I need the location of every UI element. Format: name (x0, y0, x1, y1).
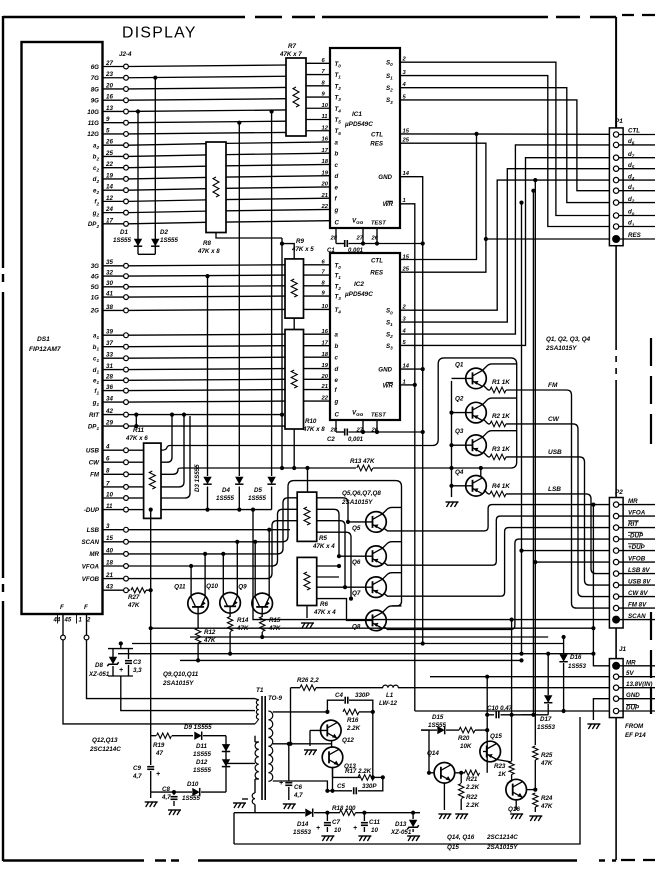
svg-text:VFOA: VFOA (82, 563, 100, 570)
capacitor C5 330P (327, 790, 352, 792)
zener diode D8 XZ-051 (112, 649, 114, 657)
svg-text:25: 25 (402, 267, 410, 273)
svg-text:12G: 12G (87, 131, 99, 138)
wire IC1 S1 to P1 d1 (400, 76, 609, 227)
svg-text:g: g (334, 207, 339, 214)
resistor R17 2.2K (332, 768, 334, 778)
transistor Q12 2SC1214C (321, 720, 342, 741)
resistor R14 47K (229, 606, 231, 617)
svg-text:USB: USB (548, 449, 562, 456)
svg-text:FM: FM (90, 472, 100, 479)
capacitor C9 4.7 (147, 766, 154, 768)
P1 pin d2 (613, 200, 618, 205)
transistor Q4 2SA1015Y (466, 476, 487, 497)
svg-text:C11: C11 (369, 819, 380, 826)
resistor R26 2.2 (300, 685, 316, 691)
svg-text:17: 17 (322, 340, 329, 346)
svg-text:+: + (353, 825, 357, 832)
wire R16/C4 node down (372, 712, 374, 778)
wire T1 lower winding stubs (255, 741, 259, 743)
ground under C9 line (150, 792, 152, 798)
capacitor C2 0.001 (336, 431, 344, 433)
capacitor C10 0.47 (487, 714, 494, 716)
zener diode D13 XZ-051 (412, 813, 414, 819)
transistor Q9 2SA1015Y (252, 593, 273, 614)
svg-text:R6: R6 (320, 601, 328, 608)
svg-text:J1: J1 (619, 646, 627, 653)
svg-text:2SC1214C: 2SC1214C (486, 834, 518, 841)
P1 pin d7 (613, 155, 618, 160)
svg-text:8G: 8G (91, 86, 99, 93)
svg-text:330P: 330P (355, 692, 370, 699)
svg-text:13.8V(IN): 13.8V(IN) (626, 681, 652, 688)
svg-text:g: g (334, 399, 339, 406)
svg-text:FROM: FROM (625, 723, 644, 730)
resistor R23 1K (509, 762, 514, 775)
wire CTL vertical to IC2 (400, 134, 477, 260)
P2 pin LSB 8V (613, 571, 618, 576)
J1 pin MR (612, 662, 620, 670)
svg-text:Q10: Q10 (206, 583, 218, 590)
R5 output fan wires (317, 498, 348, 522)
adjacent sheet fold dashes right edge (650, 338, 652, 714)
frame line through J1 bottom (615, 718, 617, 860)
P2 pin USB 8V (613, 582, 618, 587)
wire R19 line (151, 735, 156, 737)
wire IC2 WR row (400, 384, 415, 386)
wire FM to P2 (506, 390, 609, 608)
Q6 base wire (339, 555, 373, 557)
wire P1 d6 to IC2 S2 (400, 145, 609, 334)
svg-text:RIT: RIT (628, 521, 639, 528)
bus wire to J1 MR (151, 627, 594, 629)
R11 output fan wire to Q1-Q4 hood line (161, 446, 170, 451)
transistor Q13 2SC1214C stacked (322, 747, 343, 768)
svg-text:17: 17 (322, 148, 329, 154)
capacitor C8 4.7 (173, 792, 175, 795)
P2 pin FM 8V (613, 605, 618, 610)
svg-text:R18 100: R18 100 (332, 805, 356, 812)
wire P1 d4 to IC2 S0 (400, 180, 609, 310)
Q16 emitter ground (515, 800, 517, 810)
frame line P2 bottom to J1 top (615, 628, 617, 659)
P2 pin -DUP (613, 536, 618, 541)
svg-text:D14: D14 (297, 821, 309, 828)
svg-text:R15: R15 (269, 617, 281, 624)
svg-text:1G: 1G (91, 294, 99, 301)
svg-text:D2: D2 (160, 229, 168, 236)
wire R27 column up to -DUP bus (150, 510, 152, 591)
wire grid 10G column down to D5 (271, 112, 273, 477)
svg-text:2.2K: 2.2K (465, 802, 480, 809)
svg-text:SCAN: SCAN (628, 613, 646, 620)
IC IC2 uPD549C (330, 253, 400, 420)
svg-text:CTL: CTL (371, 131, 383, 138)
wire 7G grid junction down (154, 78, 156, 255)
wire Q12 emitter to Q13 (331, 741, 333, 747)
svg-text:FM: FM (548, 382, 558, 389)
resistor R12 47K (197, 607, 199, 628)
svg-text:4,7: 4,7 (132, 773, 142, 780)
svg-text:47K: 47K (540, 760, 553, 767)
svg-text:R5: R5 (319, 535, 327, 542)
wire D1 D2 common (138, 253, 155, 255)
diode D9 1S555 (194, 732, 201, 740)
Q5-Q8 emitter hood wire (288, 481, 402, 606)
wire 43 down to R19 line (146, 590, 151, 736)
svg-text:LSB: LSB (548, 486, 561, 493)
svg-text:D8: D8 (95, 662, 103, 669)
bus wire d3 column down (532, 191, 534, 715)
svg-text:L1: L1 (386, 692, 394, 699)
svg-text:CW: CW (89, 460, 100, 467)
svg-text:D15: D15 (432, 714, 444, 721)
svg-text:21: 21 (321, 193, 328, 199)
svg-text:7G: 7G (91, 75, 99, 82)
svg-text:5G: 5G (91, 284, 99, 291)
svg-text:R9: R9 (296, 238, 304, 245)
resistor network R10 47Kx8 (285, 330, 304, 430)
capacitor C7 10 (326, 813, 328, 821)
diode D14 1S553 (305, 809, 312, 817)
svg-text:C3: C3 (133, 659, 141, 666)
resistor R27 47K (129, 589, 131, 591)
svg-text:MR: MR (626, 659, 636, 666)
R6 row 2 wire (317, 576, 339, 578)
svg-text:2SA1015Y: 2SA1015Y (162, 680, 194, 687)
svg-text:16: 16 (322, 329, 329, 335)
svg-text:Q3: Q3 (455, 428, 464, 435)
svg-text:Q1, Q2, Q3, Q4: Q1, Q2, Q3, Q4 (546, 336, 591, 343)
bus wire 5 (180, 659, 522, 661)
resistor R25 47K (533, 746, 538, 760)
Q5 base wire (348, 521, 373, 523)
wire J1 MR to P2 MR (593, 505, 609, 666)
svg-text:WR: WR (383, 201, 394, 208)
Q7 base wire (317, 586, 373, 588)
svg-text:TO-9: TO-9 (268, 695, 283, 702)
J1 pin GND (613, 696, 618, 701)
adjacent sheet fold dashes bottom right (621, 859, 655, 861)
svg-text:TEST: TEST (371, 221, 386, 227)
capacitor C6 4.7 (288, 744, 290, 781)
P2 pin CW 8V (613, 594, 618, 599)
svg-text:-DUP: -DUP (84, 507, 100, 514)
svg-text:10G: 10G (87, 109, 99, 116)
svg-text:45: 45 (64, 618, 72, 624)
diode D16 1S553 (563, 637, 565, 654)
svg-text:VFOB: VFOB (628, 555, 646, 562)
svg-text:47K x 4: 47K x 4 (312, 543, 335, 550)
svg-text:10: 10 (371, 827, 378, 834)
wire R9 to R10 common (293, 318, 295, 329)
svg-text:D11: D11 (196, 743, 207, 750)
diode D11 1S555 (222, 744, 230, 751)
svg-text:VFOA: VFOA (628, 509, 646, 516)
Q14 base wire (429, 772, 434, 774)
svg-text:SCAN: SCAN (81, 539, 99, 546)
svg-text:18: 18 (322, 352, 329, 358)
P1 pin d5 (613, 166, 618, 171)
svg-text:D1: D1 (120, 229, 128, 236)
svg-text:Q7: Q7 (352, 590, 361, 597)
svg-text:1K: 1K (498, 771, 506, 778)
svg-text:CTL: CTL (628, 128, 640, 135)
svg-text:11: 11 (322, 114, 328, 120)
border frame right (615, 17, 617, 128)
wire Q15 emitter to R23 (497, 760, 512, 763)
svg-text:R12: R12 (204, 629, 216, 636)
T1 bottom coil (254, 779, 256, 793)
svg-text:2G: 2G (90, 308, 99, 315)
transistor Q15 2SA1015Y (480, 741, 501, 762)
svg-text:Q12: Q12 (342, 737, 354, 744)
wire C9 column (150, 736, 152, 765)
capacitor C1 0.001 (336, 243, 344, 245)
wire R10 common down (293, 429, 295, 468)
svg-text:CW 8V: CW 8V (628, 590, 648, 597)
svg-text:5V: 5V (626, 670, 634, 677)
wire R5 common from R13 (307, 468, 309, 492)
svg-text:D12: D12 (196, 759, 208, 766)
svg-text:GND: GND (378, 174, 392, 181)
wire Q8 collector to P2 via riser (384, 539, 610, 629)
bottom supply rail (234, 812, 305, 814)
diode D5 1S555 (267, 477, 275, 484)
P1 pin d3 (613, 188, 618, 193)
Q16 collector wire (527, 789, 536, 791)
svg-text:D5: D5 (254, 487, 262, 494)
svg-text:1S555: 1S555 (160, 237, 178, 244)
wire J1 GND to ground (593, 699, 609, 720)
wire RIT bus row (136, 414, 282, 416)
svg-text:R1 1K: R1 1K (492, 379, 510, 386)
ground below Q1-Q4 base bus (447, 502, 458, 507)
svg-text:IC1: IC1 (352, 111, 362, 118)
svg-text:11G: 11G (88, 120, 99, 127)
border frame bottom (3, 859, 616, 861)
P1 pin CTL (613, 132, 618, 137)
Q8 base wire (317, 599, 373, 621)
bus wire d4 column down to R25 (534, 180, 536, 745)
svg-text:F: F (60, 604, 64, 611)
transistor Q11 2SA1015Y (188, 593, 209, 614)
wire C10 to R20 node (486, 677, 488, 773)
svg-text:15: 15 (403, 255, 410, 261)
svg-text:47K x 8: 47K x 8 (197, 248, 220, 255)
wire rectifier output to supply (290, 688, 292, 744)
svg-text:P1: P1 (615, 118, 623, 125)
Q9 collector/emitter risers (254, 542, 256, 596)
svg-text:47K x 6: 47K x 6 (125, 435, 148, 442)
transistor Q3 2SA1015Y (466, 435, 487, 456)
inductor L1 LW-12 (383, 685, 399, 688)
P2 pin VFOB (613, 559, 618, 564)
svg-text:C2: C2 (327, 437, 335, 443)
P2 pin MR (613, 502, 618, 507)
svg-text:Q9,Q10,Q11: Q9,Q10,Q11 (163, 671, 199, 678)
svg-text:19: 19 (322, 363, 329, 369)
svg-text:D10: D10 (187, 781, 199, 788)
svg-text:XZ-051: XZ-051 (88, 671, 110, 678)
wire D3 D4 D5 common to -DUP net (151, 509, 272, 511)
svg-text:C6: C6 (294, 784, 302, 791)
resistor R16 2.2K (343, 709, 359, 715)
svg-text:Q15: Q15 (490, 733, 502, 740)
wire D11/D12 column (225, 736, 227, 792)
svg-text:10: 10 (322, 103, 329, 109)
svg-text:Q16: Q16 (508, 806, 520, 813)
wire commons column (281, 238, 283, 468)
svg-text:µPD549C: µPD549C (344, 291, 373, 298)
Q11 collector/emitter risers (190, 566, 192, 596)
svg-text:22: 22 (321, 396, 329, 402)
display tube DS1 FIP12AM7 (22, 42, 103, 614)
svg-text:D16: D16 (570, 654, 582, 661)
wire CW to P2 (506, 424, 609, 597)
svg-text:C8: C8 (162, 786, 170, 793)
svg-text:Q14, Q16: Q14, Q16 (447, 834, 475, 841)
svg-text:6G: 6G (91, 64, 99, 71)
wire T1 center tap (273, 743, 332, 745)
svg-text:10K: 10K (460, 743, 472, 750)
wire D10 line (151, 791, 192, 793)
svg-text:1S555: 1S555 (428, 722, 446, 729)
svg-text:C: C (335, 220, 340, 227)
P2 pin RIT (613, 525, 618, 530)
wire IC1 S3 to P1 d3 (400, 100, 609, 191)
wire D8/C3 top bus (108, 648, 133, 650)
svg-text:-DUP: -DUP (628, 532, 644, 539)
svg-text:R17 2.2K: R17 2.2K (345, 768, 372, 775)
svg-text:R7: R7 (288, 43, 296, 50)
svg-text:R24: R24 (541, 795, 553, 802)
R6 row 1 wire (317, 565, 339, 567)
adjacent sheet fold dashes top right (622, 14, 655, 16)
P2 pin SCAN (612, 616, 620, 624)
svg-text:1S555: 1S555 (248, 495, 266, 502)
wire P2 VFOB row (535, 561, 609, 563)
transistor Q8 2SA1015Y (366, 610, 387, 631)
svg-text:RIT: RIT (89, 412, 100, 419)
svg-text:D4: D4 (222, 487, 230, 494)
svg-text:R2 1K: R2 1K (492, 413, 510, 420)
wire Q5 collector to P2 via riser (384, 505, 610, 531)
svg-text:20: 20 (321, 374, 329, 380)
P1 pin d1 (613, 224, 618, 229)
diode D12 1S555 (222, 759, 230, 766)
svg-text:IC2: IC2 (354, 281, 364, 288)
resistor R21 2.2K (455, 772, 465, 774)
svg-text:1S555: 1S555 (113, 237, 131, 244)
wire grid 4G column down to D3 (207, 276, 209, 476)
Q12 base ground (310, 729, 327, 731)
filament wire 1 (62, 614, 64, 635)
svg-text:R10: R10 (305, 418, 317, 425)
ground at T1 bottom coil (242, 798, 248, 800)
wire T1 secondary top to oscillator (273, 711, 328, 713)
frame line P1 bottom to P2 top (615, 246, 617, 498)
svg-text:R26 2,2: R26 2,2 (297, 677, 319, 684)
IC IC1 uPD549C (330, 48, 400, 228)
svg-text:e: e (335, 377, 339, 384)
svg-text:+DUP: +DUP (628, 544, 646, 551)
wire P1 RES row (486, 238, 610, 240)
resistor R24 47K (533, 793, 538, 807)
wire J1 5V long (430, 676, 564, 678)
transistor Q1 2SA1015Y (466, 368, 487, 389)
svg-text:+: + (119, 667, 123, 674)
wire P1 d5 to IC2 S1 (400, 169, 609, 322)
P1 pin RES (612, 235, 620, 243)
svg-text:c: c (335, 355, 339, 362)
svg-text:RES: RES (628, 232, 642, 239)
svg-text:3G: 3G (91, 263, 99, 270)
svg-text:FIP12AM7: FIP12AM7 (29, 346, 61, 353)
diode D10 1S555 (192, 788, 199, 796)
svg-text:VFOB: VFOB (82, 576, 100, 583)
svg-text:10: 10 (322, 304, 329, 310)
svg-text:16: 16 (322, 137, 329, 143)
svg-text:DISPLAY: DISPLAY (122, 25, 197, 42)
wire Q7 collector to P2 via riser (384, 528, 610, 597)
wire T1 secondary bottom (273, 781, 328, 791)
svg-text:2SA1015Y: 2SA1015Y (545, 345, 577, 352)
T1 secondary winding (268, 711, 272, 781)
svg-text:MR: MR (628, 498, 638, 505)
wire IC1 CTL to P1 CTL (400, 133, 609, 135)
J1 pin 13.8V(IN) (613, 685, 618, 690)
transistor Q2 2SA1015Y (466, 402, 487, 423)
svg-text:Q5: Q5 (352, 525, 361, 532)
wire Q13 emitter down to C5 line (332, 768, 334, 791)
diode D3 1S555 (203, 477, 211, 484)
P1 pin d0 (613, 213, 618, 218)
bus wire to D17 (190, 636, 548, 638)
resistor R20 10K (459, 727, 475, 733)
svg-text:4,7: 4,7 (293, 792, 303, 799)
svg-text:LW-12: LW-12 (379, 700, 398, 707)
svg-text:R20: R20 (458, 735, 470, 742)
svg-text:Q8: Q8 (352, 623, 361, 630)
resistor R4 1K (484, 490, 488, 494)
bus wire 4 (118, 653, 593, 655)
bus wire to D16 (132, 643, 564, 645)
resistor network R5 47Kx4 (297, 492, 317, 541)
svg-text:0,001: 0,001 (348, 437, 364, 443)
J1 pin DUP (613, 708, 618, 713)
svg-text:R13 47K: R13 47K (350, 458, 375, 465)
wire filament F to T1 bottom (63, 640, 255, 724)
svg-text:4,7: 4,7 (161, 794, 171, 801)
svg-text:47K x 7: 47K x 7 (279, 51, 302, 58)
resistor R3 1K (484, 453, 488, 457)
Q1-Q4 base bus (451, 381, 453, 497)
Q15 base wire (483, 751, 487, 753)
svg-text:18: 18 (322, 159, 329, 165)
transistor Q10 2SA1015Y (220, 593, 241, 614)
R11 output fan wire to R13 line (161, 468, 182, 474)
svg-text:Q14: Q14 (427, 750, 439, 757)
svg-text:RES: RES (370, 270, 384, 277)
wire C10 line to D17 (522, 714, 549, 716)
diode D17 1S553 (547, 654, 549, 695)
svg-text:47: 47 (155, 750, 163, 757)
resistor R22 2.2K (460, 773, 462, 783)
svg-text:12: 12 (322, 125, 329, 131)
svg-text:MR: MR (89, 551, 99, 558)
wire R8 common (216, 233, 282, 239)
